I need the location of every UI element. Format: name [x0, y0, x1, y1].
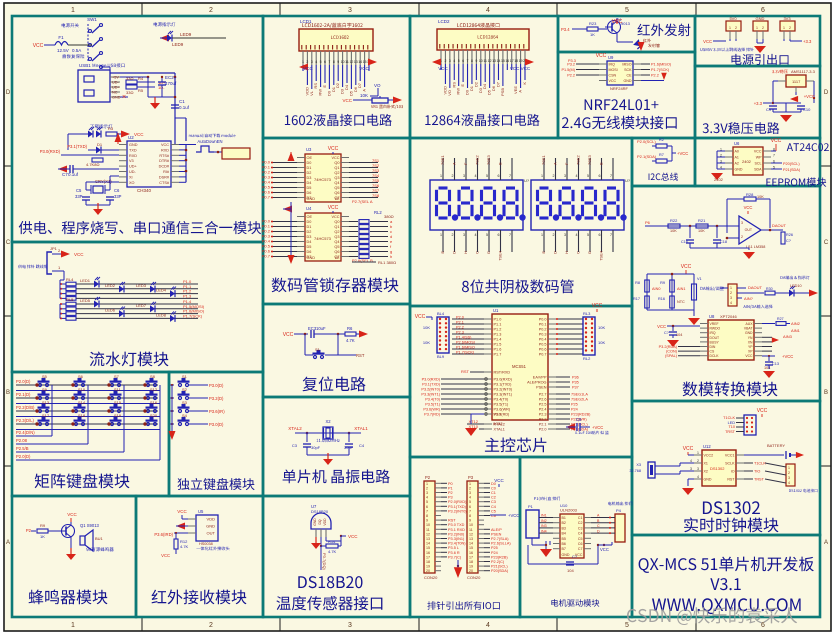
- svg-text:RST: RST: [727, 478, 735, 482]
- svg-text:LED5: LED5: [80, 298, 91, 303]
- svg-text:VCC: VCC: [600, 547, 609, 552]
- svg-text:P0.0: P0.0: [539, 318, 547, 322]
- svg-text:D7: D7: [495, 81, 500, 87]
- svg-text:2: 2: [553, 233, 555, 237]
- svg-text:P3.7(RD): P3.7(RD): [424, 413, 441, 417]
- svg-text:1K: 1K: [40, 534, 45, 539]
- svg-text:33Ω: 33Ω: [126, 90, 133, 95]
- svg-text:X2: X2: [325, 419, 331, 424]
- svg-text:LE: LE: [335, 197, 340, 201]
- svg-text:C3: C3: [292, 443, 298, 448]
- svg-text:1: 1: [729, 26, 731, 30]
- svg-text:S17: S17: [42, 413, 50, 418]
- svg-text:P25: P25: [491, 546, 498, 550]
- svg-text:V1: V1: [697, 277, 702, 281]
- svg-text:R28: R28: [746, 192, 754, 197]
- svg-text:F1: F1: [58, 35, 64, 40]
- svg-text:10K: 10K: [757, 195, 764, 199]
- svg-text:P20(SDA): P20(SDA): [491, 569, 509, 573]
- svg-text:R21: R21: [698, 218, 706, 223]
- svg-text:4: 4: [788, 481, 790, 485]
- svg-text:P0.3: P0.3: [539, 333, 547, 337]
- svg-text:2: 2: [426, 486, 428, 490]
- svg-text:Q6: Q6: [334, 191, 339, 195]
- svg-text:CON20: CON20: [424, 575, 438, 580]
- svg-text:6: 6: [599, 233, 601, 237]
- svg-text:VCC: VCC: [771, 138, 782, 144]
- svg-text:P3.2(IN0): P3.2(IN0): [448, 532, 465, 536]
- svg-text:4: 4: [469, 496, 471, 500]
- svg-text:8: 8: [426, 514, 428, 518]
- svg-text:12.5V: 12.5V: [57, 48, 69, 53]
- svg-text:P2.3: P2.3: [456, 331, 464, 335]
- svg-text:P2.2(D/B): P2.2(D/B): [16, 405, 35, 410]
- svg-text:13: 13: [469, 537, 473, 541]
- svg-text:R22: R22: [670, 218, 678, 223]
- svg-text:U?: U?: [625, 178, 631, 183]
- svg-text:LED10: LED10: [790, 284, 802, 288]
- svg-text:P1.4: P1.4: [494, 338, 502, 342]
- svg-text:CS: CS: [710, 350, 715, 354]
- svg-text:P2.7: P2.7: [539, 393, 547, 397]
- svg-text:74HC573: 74HC573: [314, 177, 332, 182]
- svg-text:9: 9: [469, 519, 471, 523]
- svg-text:VCC: VCC: [161, 143, 169, 147]
- svg-text:DIN: DIN: [710, 345, 716, 349]
- svg-text:R27: R27: [777, 317, 784, 321]
- svg-text:U1: U1: [493, 308, 499, 313]
- svg-text:B2: B2: [562, 521, 566, 525]
- svg-text:X1: X1: [704, 462, 708, 466]
- svg-text:VCC: VCC: [342, 98, 352, 103]
- svg-text:5: 5: [320, 60, 322, 64]
- svg-text:XTAL1: XTAL1: [354, 426, 368, 431]
- svg-text:1: 1: [71, 7, 75, 14]
- svg-text:19: 19: [469, 565, 473, 569]
- svg-text:D: D: [553, 251, 558, 254]
- svg-text:8: 8: [469, 514, 471, 518]
- svg-text:VCC: VCC: [331, 156, 339, 160]
- svg-text:B6: B6: [562, 542, 566, 546]
- svg-text:2: 2: [788, 471, 790, 475]
- svg-text:12: 12: [488, 59, 492, 63]
- svg-text:3: 3: [311, 60, 313, 64]
- svg-text:4: 4: [486, 622, 490, 629]
- svg-text:P23(R2B): P23(R2B): [491, 555, 508, 559]
- svg-text:3: 3: [690, 467, 692, 471]
- svg-text:C7: C7: [578, 547, 583, 551]
- svg-text:15: 15: [501, 59, 505, 63]
- svg-text:LED3: LED3: [136, 283, 147, 288]
- svg-text:Q1 S9013: Q1 S9013: [80, 523, 100, 528]
- svg-text:IN3: IN3: [541, 524, 547, 528]
- svg-text:5: 5: [486, 174, 488, 178]
- svg-text:30pF: 30pF: [311, 445, 321, 450]
- svg-text:R30: R30: [766, 287, 773, 291]
- svg-text:5: 5: [486, 233, 488, 237]
- svg-text:VCC: VCC: [494, 478, 504, 483]
- svg-text:3: 3: [463, 233, 465, 237]
- svg-text:P24: P24: [571, 408, 578, 412]
- svg-text:VCC: VCC: [33, 43, 44, 49]
- svg-text:RL5: RL5: [66, 297, 74, 302]
- svg-text:P2.4: P2.4: [539, 408, 547, 412]
- svg-text:P3.7(DQ): P3.7(DQ): [322, 553, 327, 571]
- svg-text:11: 11: [345, 60, 349, 64]
- svg-text:104: 104: [567, 568, 574, 573]
- svg-text:T1CLK: T1CLK: [754, 462, 766, 466]
- svg-text:P2.0: P2.0: [539, 428, 547, 432]
- svg-text:4: 4: [697, 475, 699, 479]
- svg-text:P25: P25: [571, 403, 578, 407]
- svg-text:1: 1: [788, 466, 790, 470]
- svg-text:U8: U8: [709, 314, 715, 319]
- svg-text:E: E: [460, 84, 465, 87]
- svg-text:7SE3: 7SE3: [486, 154, 491, 165]
- svg-text:GND: GND: [735, 168, 743, 172]
- svg-text:P0.5: P0.5: [539, 343, 547, 347]
- svg-text:P2.2: P2.2: [651, 74, 659, 78]
- svg-text:D: D: [6, 90, 11, 96]
- svg-text:P3.1(TXD): P3.1(TXD): [494, 383, 513, 387]
- svg-text:A: A: [553, 162, 558, 165]
- svg-text:P2.2: P2.2: [567, 74, 575, 78]
- svg-text:Q3: Q3: [334, 176, 339, 180]
- svg-text:P2.7(SEL A: P2.7(SEL A: [352, 199, 373, 204]
- svg-text:VCC: VCC: [74, 252, 84, 257]
- svg-text:3: 3: [564, 174, 566, 178]
- svg-text:CE: CE: [627, 74, 633, 78]
- svg-text:P2.5: P2.5: [539, 403, 547, 407]
- svg-text:Q3: Q3: [334, 235, 339, 239]
- svg-text:15: 15: [469, 546, 473, 550]
- svg-text:RST/RXD: RST/RXD: [494, 371, 511, 375]
- svg-text:CON20: CON20: [467, 575, 481, 580]
- svg-text:74HC573: 74HC573: [314, 236, 332, 241]
- svg-text:P3.1(TXD): P3.1(TXD): [448, 505, 467, 509]
- svg-text:X3: X3: [636, 463, 641, 467]
- svg-text:P2.6(MOSI: P2.6(MOSI: [456, 341, 475, 345]
- svg-text:PSEN: PSEN: [491, 532, 502, 536]
- svg-text:IN1: IN1: [541, 514, 547, 518]
- svg-text:LED4: LED4: [156, 288, 167, 293]
- svg-text:VCC: VCC: [744, 205, 753, 210]
- svg-text:T1CLK: T1CLK: [723, 416, 735, 420]
- svg-text:2: 2: [735, 26, 737, 30]
- svg-text:6: 6: [462, 59, 464, 63]
- svg-text:VDD: VDD: [207, 517, 216, 522]
- svg-text:+5V: +5V: [112, 76, 119, 80]
- svg-text:D5: D5: [307, 245, 312, 249]
- svg-text:C: C: [576, 251, 581, 254]
- svg-text:D: D: [452, 251, 457, 254]
- svg-text:11: 11: [469, 528, 473, 532]
- svg-text:P3.4(T0): P3.4(T0): [425, 398, 441, 402]
- svg-text:RL1 380Ω: RL1 380Ω: [378, 260, 396, 265]
- svg-text:D6: D6: [307, 250, 312, 254]
- svg-text:P3.7(C): P3.7(C): [448, 555, 462, 559]
- svg-text:P0: P0: [448, 482, 453, 486]
- svg-text:K: K: [522, 82, 527, 85]
- svg-text:U?: U?: [524, 178, 530, 183]
- svg-text:VDD: VDD: [323, 518, 327, 526]
- svg-text:BUSY: BUSY: [710, 340, 720, 344]
- svg-text:RL3: RL3: [583, 311, 591, 316]
- svg-text:AIN?: AIN?: [744, 296, 754, 301]
- svg-text:S1: S1: [182, 374, 188, 379]
- svg-text:P3.6 R: P3.6 R: [448, 551, 460, 555]
- svg-text:P3.2(INT0): P3.2(INT0): [421, 388, 440, 392]
- svg-text:P3.6(WR): P3.6(WR): [494, 408, 511, 412]
- svg-text:1: 1: [469, 482, 471, 486]
- svg-text:5: 5: [625, 622, 629, 629]
- svg-text:CH340: CH340: [137, 188, 152, 193]
- svg-text:A: A: [6, 540, 10, 546]
- svg-text:B: B: [498, 162, 503, 165]
- svg-text:LCD2: LCD2: [438, 19, 450, 24]
- svg-text:AIN1: AIN1: [791, 328, 801, 333]
- svg-text:P0.6: P0.6: [539, 348, 547, 352]
- svg-text:9013: 9013: [621, 21, 631, 26]
- svg-text:5: 5: [625, 7, 629, 14]
- svg-text:G: G: [587, 251, 592, 254]
- svg-text:R8: R8: [635, 281, 640, 285]
- svg-text:IN2: IN2: [541, 519, 547, 523]
- svg-text:2: 2: [452, 233, 454, 237]
- svg-text:AIN2: AIN2: [791, 321, 801, 326]
- svg-text:P3.3(INT1): P3.3(INT1): [494, 393, 513, 397]
- svg-text:1: 1: [302, 60, 304, 64]
- svg-text:VCC: VCC: [683, 446, 694, 452]
- svg-text:C10: C10: [803, 107, 811, 112]
- svg-text:GND: GND: [112, 96, 121, 100]
- svg-text:VCC2: VCC2: [704, 454, 714, 458]
- svg-text:9: 9: [426, 519, 428, 523]
- svg-text:UD+: UD+: [129, 165, 137, 169]
- svg-text:Q0: Q0: [334, 161, 339, 165]
- svg-text:SDA: SDA: [754, 168, 762, 172]
- svg-text:LED1: LED1: [80, 278, 91, 283]
- svg-text:P3.0(RXD): P3.0(RXD): [422, 378, 441, 382]
- svg-text:P2.1: P2.1: [539, 423, 547, 427]
- svg-text:14: 14: [358, 60, 362, 64]
- svg-text:14: 14: [469, 542, 473, 546]
- svg-text:OE: OE: [307, 215, 313, 219]
- svg-text:Q4: Q4: [334, 181, 339, 185]
- svg-text:7SE2: 7SE2: [576, 154, 581, 165]
- svg-text:CSN: CSN: [609, 74, 617, 78]
- svg-text:11: 11: [426, 528, 430, 532]
- svg-text:C6: C6: [114, 188, 120, 193]
- svg-text:RTS#: RTS#: [159, 154, 170, 158]
- svg-text:2: 2: [789, 26, 791, 30]
- svg-text:P21(SCL): P21(SCL): [491, 565, 508, 569]
- svg-text:10: 10: [479, 59, 483, 63]
- svg-text:VCC: VCC: [161, 553, 170, 558]
- svg-text:S14: S14: [78, 400, 86, 405]
- svg-text:CTS#: CTS#: [159, 181, 170, 185]
- svg-text:4: 4: [576, 233, 578, 237]
- svg-text:RI#: RI#: [163, 170, 170, 174]
- svg-text:VCC: VCC: [283, 332, 294, 338]
- svg-text:GND: GND: [129, 143, 138, 147]
- svg-text:P3.0(D): P3.0(D): [209, 422, 224, 427]
- svg-text:10K: 10K: [423, 340, 430, 345]
- svg-text:C: C: [475, 251, 480, 254]
- svg-text:RL2: RL2: [374, 210, 382, 215]
- svg-text:P3.3(IN1): P3.3(IN1): [448, 537, 465, 541]
- svg-text:D1: D1: [97, 142, 103, 147]
- svg-text:1: 1: [440, 174, 442, 178]
- svg-text:MISO: MISO: [622, 63, 631, 67]
- svg-text:S16: S16: [150, 400, 158, 405]
- svg-text:P20(SCL): P20(SCL): [783, 162, 800, 166]
- svg-text:B1: B1: [562, 516, 566, 520]
- svg-text:X2: X2: [704, 470, 708, 474]
- svg-text:4: 4: [453, 59, 455, 63]
- svg-text:P1.0: P1.0: [494, 318, 502, 322]
- svg-text:6: 6: [498, 233, 500, 237]
- svg-text:3: 3: [730, 296, 732, 300]
- svg-text:HS0038: HS0038: [199, 542, 213, 546]
- svg-text:OE: OE: [307, 156, 313, 160]
- svg-text:S10: S10: [78, 387, 86, 392]
- svg-text:P2.2: P2.2: [456, 326, 464, 330]
- svg-text:0.1uf: 0.1uf: [68, 172, 79, 177]
- svg-text:B: B: [599, 162, 604, 165]
- svg-text:BL4: BL4: [437, 311, 445, 316]
- svg-text:VCC: VCC: [609, 79, 617, 83]
- svg-text:P3.4: P3.4: [561, 27, 570, 32]
- svg-text:DAOUT: DAOUT: [772, 223, 787, 228]
- svg-text:+VCC: +VCC: [804, 94, 815, 99]
- svg-text:2: 2: [469, 486, 471, 490]
- svg-text:+VCC: +VCC: [782, 354, 793, 359]
- svg-text:7SE2: 7SE2: [475, 154, 480, 165]
- svg-text:2402: 2402: [742, 159, 752, 164]
- svg-text:VCC: VCC: [703, 39, 712, 44]
- svg-text:P1.7: P1.7: [494, 353, 502, 357]
- svg-text:P2.0(D): P2.0(D): [16, 379, 31, 384]
- svg-text:P3.1(TXD): P3.1(TXD): [67, 144, 87, 149]
- svg-text:XTAL2: XTAL2: [288, 426, 302, 431]
- svg-text:4: 4: [576, 174, 578, 178]
- svg-text:P2.1: P2.1: [456, 321, 464, 325]
- svg-text:TXD: TXD: [129, 148, 137, 152]
- svg-text:T10: T10: [728, 425, 735, 429]
- svg-text:20: 20: [426, 569, 430, 573]
- svg-text:17: 17: [469, 555, 473, 559]
- svg-text:R16: R16: [658, 297, 665, 301]
- svg-text:UD+: UD+: [112, 86, 120, 90]
- svg-text:33Ω: 33Ω: [126, 76, 133, 81]
- svg-text:GND: GND: [624, 79, 632, 83]
- svg-text:7: 7: [467, 59, 469, 63]
- svg-text:4.7K: 4.7K: [328, 549, 337, 554]
- svg-text:D0: D0: [307, 161, 312, 165]
- svg-text:5: 5: [426, 500, 428, 504]
- svg-text:VCC: VCC: [757, 408, 768, 414]
- svg-text:P2.3: P2.3: [539, 413, 547, 417]
- svg-text:R26: R26: [786, 233, 793, 237]
- svg-text:10K: 10K: [598, 325, 605, 330]
- svg-text:18: 18: [426, 560, 430, 564]
- svg-text:R7: R7: [659, 153, 664, 157]
- svg-text:4: 4: [486, 7, 490, 14]
- svg-text:AUX: AUX: [746, 322, 754, 326]
- svg-text:S12: S12: [150, 387, 158, 392]
- svg-text:+VCC: +VCC: [592, 425, 603, 430]
- svg-text:A1: A1: [735, 156, 739, 160]
- svg-text:×: ×: [122, 94, 126, 101]
- svg-text:C18: C18: [720, 240, 727, 244]
- svg-text:4: 4: [475, 174, 477, 178]
- svg-text:DCLK: DCLK: [710, 354, 720, 358]
- svg-text:Q1: Q1: [334, 225, 339, 229]
- svg-text:VCC: VCC: [592, 303, 603, 309]
- svg-text:P2.0(D): P2.0(D): [16, 454, 31, 459]
- svg-text:H: H: [564, 251, 569, 254]
- svg-text:P3.3(INT1): P3.3(INT1): [421, 393, 440, 397]
- svg-text:D0: D0: [307, 220, 312, 224]
- svg-text:VCC: VCC: [438, 66, 448, 71]
- svg-text:16: 16: [426, 551, 430, 555]
- svg-text:P1.4(SS): P1.4(SS): [456, 336, 472, 340]
- svg-text:7SE3: 7SE3: [587, 154, 592, 165]
- svg-text:13: 13: [492, 59, 496, 63]
- svg-text:P3.5(T1): P3.5(T1): [425, 403, 441, 407]
- svg-text:2: 2: [209, 7, 213, 14]
- svg-text:GND: GND: [562, 553, 570, 557]
- svg-text:D2: D2: [473, 81, 478, 87]
- svg-text:D6: D6: [307, 191, 312, 195]
- svg-text:B4: B4: [562, 532, 566, 536]
- svg-text:P3.3: P3.3: [568, 59, 576, 63]
- svg-text:380Ω: 380Ω: [384, 214, 394, 219]
- svg-text:17: 17: [510, 59, 514, 63]
- svg-text:Q1: Q1: [334, 166, 339, 170]
- svg-text:VCC: VCC: [328, 146, 339, 152]
- svg-text:EA/VPP: EA/VPP: [533, 376, 547, 380]
- svg-text:+3.3: +3.3: [803, 39, 812, 44]
- svg-text:C13: C13: [772, 362, 779, 366]
- svg-text:D2: D2: [307, 171, 312, 175]
- svg-text:C4: C4: [578, 532, 583, 536]
- svg-text:VSS: VSS: [494, 413, 502, 417]
- svg-text:LED9: LED9: [172, 42, 184, 47]
- svg-text:AutoDownEN: AutoDownEN: [197, 139, 222, 144]
- svg-text:7: 7: [469, 509, 471, 513]
- svg-text:AMS1117-3.3: AMS1117-3.3: [791, 69, 816, 74]
- svg-text:VCC VCC: VCC VCC: [510, 66, 531, 71]
- svg-text:LE: LE: [335, 256, 340, 260]
- svg-text:P2.6: P2.6: [539, 398, 547, 402]
- svg-text:YN: YN: [748, 336, 753, 340]
- svg-text:104: 104: [676, 333, 682, 337]
- svg-text:USB1: USB1: [79, 63, 91, 68]
- svg-text:P3.0 TXD: P3.0 TXD: [448, 523, 465, 527]
- svg-text:20: 20: [469, 569, 473, 573]
- svg-text:C5: C5: [491, 509, 496, 513]
- svg-text:SCL: SCL: [755, 162, 762, 166]
- svg-text:P2: P2: [425, 475, 431, 480]
- svg-text:GND: GND: [745, 331, 753, 335]
- svg-text:XPT2046: XPT2046: [720, 314, 737, 319]
- svg-text:C3: C3: [578, 526, 583, 530]
- svg-text:C: C: [824, 240, 829, 246]
- svg-text:R3: R3: [108, 126, 114, 131]
- svg-text:7SEG2LA: 7SEG2LA: [571, 398, 588, 402]
